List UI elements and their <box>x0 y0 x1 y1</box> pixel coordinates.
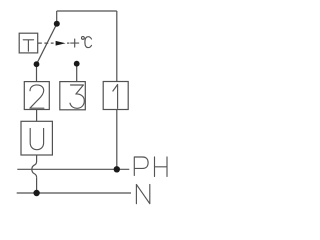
wire vertical drop to box 1 <box>116 11 118 82</box>
wire stub above switch top contact <box>56 11 58 24</box>
switch lever S1 <box>37 24 57 64</box>
wire stub box 2 to U <box>36 110 38 122</box>
node contact above box 3 <box>74 61 80 67</box>
node switch top contact <box>54 21 60 27</box>
dash after arrow <box>67 42 69 44</box>
dashed actuator link <box>38 42 54 44</box>
node junction PH <box>114 166 120 172</box>
label PH <box>134 157 167 177</box>
label U <box>30 128 43 149</box>
label T <box>23 40 33 51</box>
wire stub dot to box 3 <box>76 64 78 82</box>
node switch bottom contact <box>34 61 40 67</box>
thermostat box T <box>19 33 38 53</box>
wire hop over PH line <box>32 162 37 178</box>
wire hop to N junction <box>36 177 38 193</box>
wire PH line <box>17 168 129 170</box>
terminal box 1 <box>103 82 128 110</box>
label degree <box>82 37 85 40</box>
label 3 <box>70 85 84 108</box>
label C <box>85 37 92 48</box>
node junction N <box>33 190 39 196</box>
label 2 <box>30 85 44 108</box>
wire stub below U <box>36 155 38 162</box>
wire box 1 down to PH <box>116 110 118 169</box>
wire top horizontal <box>57 10 117 12</box>
arrowhead +degC <box>56 41 66 46</box>
terminal box 2 <box>24 82 49 110</box>
label N <box>136 184 149 203</box>
wire stub switch to box 2 <box>36 64 38 81</box>
label plus <box>71 39 79 47</box>
wire N line <box>17 192 131 194</box>
load box U <box>21 121 52 155</box>
label 1 <box>113 85 118 109</box>
terminal box 3 <box>60 82 86 110</box>
